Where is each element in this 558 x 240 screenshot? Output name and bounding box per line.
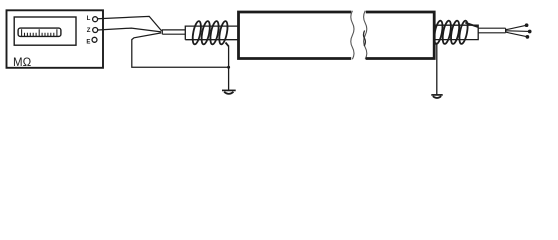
megohmmeter case U1 [7, 10, 104, 68]
svg-text:L: L [87, 15, 91, 22]
wire G terminal to conductor [98, 28, 162, 32]
cable jacket section 2 [366, 12, 434, 59]
junction [227, 66, 230, 69]
svg-text:E: E [86, 39, 90, 46]
svg-text:MΩ: MΩ [13, 57, 32, 69]
terminal E [92, 37, 97, 42]
earth wire left [228, 46, 230, 90]
torn edge dark mid section [364, 31, 366, 47]
wire shield fan down to earth bus [132, 33, 229, 67]
core insulation tube left [162, 30, 185, 34]
wire L terminal to core conductor [98, 16, 162, 31]
terminal G [93, 28, 98, 33]
core conductors fanned right [506, 24, 531, 38]
inner sheath tube left [185, 26, 239, 40]
ground symbol left [222, 90, 236, 93]
ground symbol right [431, 95, 442, 98]
guard wire coil left [191, 20, 229, 46]
torn break edge left of section 2 [364, 11, 367, 59]
earth wire right [436, 43, 438, 95]
meter display window [14, 17, 76, 45]
inner sheath tube right [435, 25, 478, 39]
core insulation tube right [478, 28, 505, 33]
terminal L [93, 17, 98, 22]
meter scale ticks [22, 29, 57, 36]
svg-text:Z: Z [87, 27, 91, 34]
cable jacket section 1 [239, 12, 352, 59]
torn break edge right of section 1 [351, 11, 354, 59]
meter scale ruler box [18, 28, 61, 36]
guard wire coil right [433, 20, 478, 45]
